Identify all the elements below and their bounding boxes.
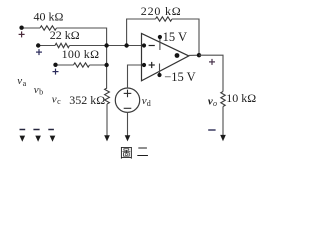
- wire vc row: [56, 64, 74, 66]
- minus vo: [208, 129, 215, 131]
- minus vb: [33, 129, 39, 131]
- power pin -15V dot: [157, 73, 161, 77]
- power pin -15V stub: [159, 64, 161, 76]
- svg-text:二: 二: [137, 145, 149, 159]
- svg-text:352 kΩ: 352 kΩ: [69, 93, 105, 107]
- source vd circle: [115, 88, 139, 112]
- op-amp plus marker: [149, 62, 155, 68]
- pin dot inverting: [142, 43, 146, 47]
- vd minus: [124, 107, 132, 109]
- svg-text:−15 V: −15 V: [164, 70, 195, 84]
- svg-text:15 V: 15 V: [163, 30, 187, 44]
- svg-text:22 kΩ: 22 kΩ: [50, 28, 80, 42]
- vd plus: [124, 90, 132, 98]
- svg-text:a: a: [23, 79, 27, 88]
- svg-text:d: d: [147, 99, 151, 108]
- svg-text:v: v: [52, 93, 57, 105]
- plus va: [19, 31, 25, 37]
- wire 40k to bus corner: [57, 28, 107, 88]
- ground arrow va: [20, 136, 26, 142]
- svg-text:v: v: [34, 84, 39, 96]
- ground arrow 352k: [104, 135, 110, 141]
- power pin +15V stub: [159, 37, 161, 50]
- minus vc: [48, 129, 54, 131]
- svg-text:100 kΩ: 100 kΩ: [62, 47, 100, 61]
- svg-text:10 kΩ: 10 kΩ: [226, 91, 256, 105]
- resistor 100k body: [74, 63, 90, 67]
- wire vb row: [38, 45, 55, 47]
- wire feedback loop: [127, 19, 156, 46]
- svg-text:o: o: [213, 99, 217, 108]
- wire vd top to noninverting input: [128, 65, 145, 88]
- resistor 220k body: [156, 17, 173, 21]
- resistor 10k body: [221, 92, 225, 107]
- power pin +15V dot: [158, 35, 162, 39]
- ground arrow vo: [220, 135, 226, 141]
- ground arrow vd: [125, 135, 131, 141]
- wire 352k to ground arrow: [106, 104, 108, 136]
- wire 10k to ground arrow: [222, 107, 224, 136]
- terminal vc dot: [53, 63, 57, 67]
- svg-text:220 kΩ: 220 kΩ: [141, 4, 182, 18]
- svg-text:v: v: [17, 75, 22, 87]
- minus va: [20, 129, 26, 131]
- op-amp U1 triangle: [142, 34, 189, 81]
- svg-text:b: b: [39, 88, 43, 97]
- plus vc: [53, 69, 59, 75]
- resistor 40k body: [40, 26, 57, 30]
- wire op-amp output: [189, 54, 199, 56]
- op-amp output pin dot: [175, 53, 180, 58]
- wire vd bottom: [127, 112, 129, 136]
- svg-text:40 kΩ: 40 kΩ: [34, 9, 64, 23]
- node bus-100k junction dot: [104, 63, 108, 67]
- svg-text:圖: 圖: [120, 145, 133, 160]
- svg-text:c: c: [57, 97, 61, 106]
- wire output to load: [199, 55, 223, 91]
- wire 22k to inverting input: [70, 45, 145, 47]
- wire va row: [22, 27, 40, 29]
- plus vb: [36, 49, 42, 55]
- ground arrow vc: [50, 136, 56, 142]
- wire feedback right to output node: [172, 19, 199, 55]
- node bus-22k junction dot: [104, 43, 108, 47]
- ground arrow vb: [35, 136, 41, 142]
- resistor 352k body: [105, 88, 110, 104]
- node feedback junction dot: [124, 43, 128, 47]
- terminal vb dot: [36, 43, 40, 47]
- terminal va dot: [19, 26, 23, 30]
- wire 100k to bus: [90, 64, 107, 66]
- op-amp minus marker: [149, 45, 155, 47]
- resistor 22k body: [55, 43, 70, 47]
- pin dot noninverting: [142, 63, 146, 67]
- node output dot: [197, 53, 201, 57]
- plus vo: [209, 59, 215, 65]
